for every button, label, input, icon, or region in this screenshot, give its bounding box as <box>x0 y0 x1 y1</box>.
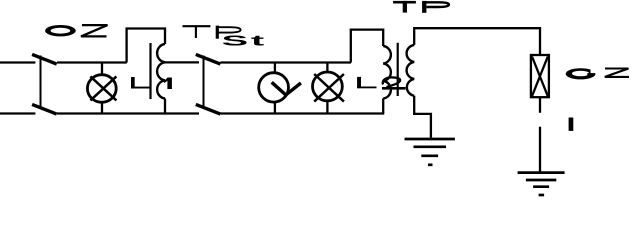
wire top rail TP to L2 <box>220 61 351 63</box>
voltmeter top stub <box>274 63 276 73</box>
spark gap GZ <box>531 55 549 97</box>
wire tap L1 to switch TP <box>165 61 199 63</box>
lamp2 (signal lamp, circle with cross) <box>313 72 344 102</box>
svg-text:St: St <box>222 33 267 49</box>
wire top-left supply <box>0 61 35 63</box>
lamp top stub <box>101 63 103 75</box>
wire L1 bottom lead <box>164 99 166 114</box>
lamp2 top stub <box>326 63 328 72</box>
switch TP top pole blade <box>196 54 221 64</box>
wire secondary bottom to ground <box>414 96 431 139</box>
label L2 <box>357 77 376 88</box>
wire GZ to ground lower segment <box>539 127 541 173</box>
inductor L1 winding <box>157 44 165 99</box>
voltmeter (circle with V mark) <box>259 73 301 102</box>
wire bottom rail left <box>57 112 199 114</box>
transformer secondary winding <box>407 45 415 96</box>
label I <box>569 118 574 131</box>
transformer core bar <box>397 43 399 96</box>
wire GZ to ground upper segment <box>539 97 541 113</box>
lamp2 bottom stub <box>326 101 328 114</box>
wire L2 bottom lead <box>382 99 384 114</box>
wire top rail OZ to L1 <box>57 61 127 63</box>
wire bottom rail right <box>220 112 384 114</box>
lamp (signal lamp, circle with cross) <box>87 75 116 103</box>
switch OZ top pole blade <box>32 54 57 64</box>
wire L1 top loop <box>127 29 165 63</box>
label L2 digit 2 <box>383 77 400 87</box>
wire bottom-left supply <box>0 112 35 114</box>
label TP (switch) <box>183 26 241 39</box>
voltmeter bottom stub <box>274 102 276 114</box>
label L1 <box>131 77 172 89</box>
switch TP bottom pole blade <box>196 104 221 114</box>
L1 core bar <box>149 43 151 99</box>
switch OZ bottom pole blade <box>32 104 57 114</box>
ground (right branch) <box>518 173 565 195</box>
switch TP gang link <box>203 56 205 107</box>
wire L2 top loop <box>351 30 383 63</box>
label OZ <box>45 25 107 36</box>
switch OZ gang link <box>40 56 42 107</box>
lamp bottom stub <box>101 103 103 114</box>
wire secondary top to GZ branch <box>414 28 540 55</box>
inductor L2 primary winding <box>383 46 391 99</box>
ground (transformer secondary) <box>405 139 455 165</box>
label GZ <box>566 68 629 79</box>
label TP (transformer) <box>393 1 426 13</box>
